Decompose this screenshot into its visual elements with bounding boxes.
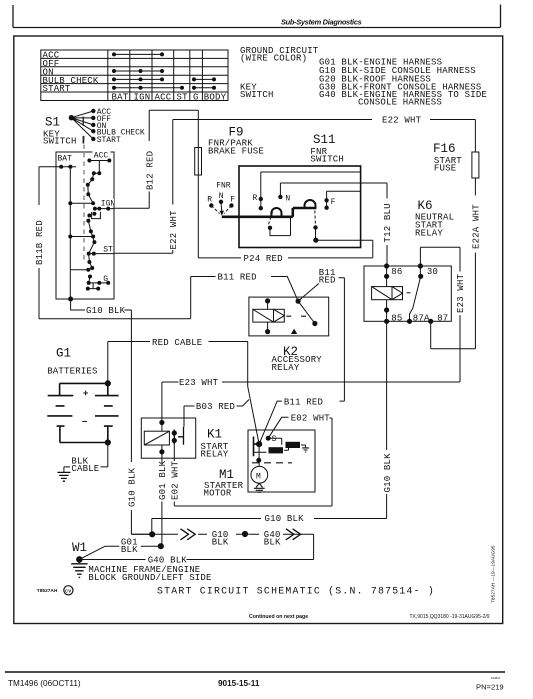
wire label G40 BLK stacked — [264, 530, 281, 548]
K1 contact — [172, 427, 183, 445]
table column headers BAT IGN ACC ST G BODY — [112, 93, 227, 103]
svg-text:ACC: ACC — [94, 152, 109, 161]
svg-text:E02 WHT: E02 WHT — [291, 413, 331, 423]
S11 contact F — [325, 191, 361, 209]
relay K6 caption NEUTRAL START RELAY — [415, 213, 454, 239]
svg-text:FNR: FNR — [216, 182, 231, 191]
key switch terminal label BAT — [57, 154, 73, 164]
K6 coil-arm dash — [407, 292, 413, 294]
wire E22 WHT key switch ST — [114, 120, 475, 254]
svg-text:B12 RED: B12 RED — [145, 151, 155, 190]
svg-text:PN=219: PN=219 — [476, 683, 504, 692]
S11 movable arm right dashed — [314, 211, 317, 225]
wire label BLK CABLE — [71, 456, 99, 474]
svg-text:BLOCK GROUND/LEFT SIDE: BLOCK GROUND/LEFT SIDE — [88, 573, 211, 583]
FNR position selector fan — [210, 200, 234, 216]
key switch terminal label ACC — [93, 150, 111, 161]
svg-text:SWITCH: SWITCH — [43, 136, 77, 146]
svg-text:BAT: BAT — [112, 93, 129, 103]
S1 position selector fan — [69, 109, 95, 140]
svg-text:B03 RED: B03 RED — [196, 402, 235, 412]
svg-text:BATTERIES: BATTERIES — [47, 367, 97, 377]
svg-text:RELAY: RELAY — [415, 229, 443, 239]
svg-text:CONSOLE HARNESS: CONSOLE HARNESS — [358, 97, 442, 107]
svg-text:30: 30 — [427, 267, 438, 277]
key switch G contact bars — [86, 275, 109, 290]
K6 terminal 87A — [407, 313, 430, 323]
table contacts row ON: BAT-IGN-ACC — [113, 70, 164, 73]
svg-text:T8527AH —19—19AUG95: T8527AH —19—19AUG95 — [491, 545, 497, 603]
ground circuit legend text — [240, 46, 487, 107]
S11 contact N rail to T12 — [279, 183, 387, 203]
svg-text:(WIRE COLOR): (WIRE COLOR) — [240, 53, 307, 63]
K2 coil terminals — [266, 299, 270, 334]
svg-text:100811: 100811 — [491, 676, 501, 680]
wire G10 BLK from key switch — [71, 299, 153, 534]
svg-text:G1: G1 — [56, 347, 71, 361]
svg-text:BLK: BLK — [212, 537, 229, 547]
svg-text:G10 BLK: G10 BLK — [86, 306, 126, 316]
svg-text:CABLE: CABLE — [71, 464, 99, 474]
wire E22A WHT from F16 to K6 87 — [431, 253, 476, 349]
svg-text:S11: S11 — [313, 133, 336, 147]
svg-text:G01 BLK: G01 BLK — [158, 460, 168, 500]
svg-text:BODY: BODY — [204, 93, 227, 103]
ground caption MACHINE FRAME/ENGINE BLOCK GROUND/LEFT SIDE — [88, 565, 211, 583]
svg-text:K1: K1 — [207, 428, 222, 442]
key switch IGN contact bar — [93, 207, 114, 210]
wire G01 BLK from K1 coil — [161, 452, 163, 546]
svg-text:Sub-System Diagnostics: Sub-System Diagnostics — [281, 17, 362, 26]
battery polarity plus — [83, 391, 88, 396]
svg-text:E22 WHT: E22 WHT — [382, 116, 422, 126]
table contacts row START: BAT-IGN-ST and G-BODY — [113, 86, 216, 89]
key switch internal dashed centerline — [83, 136, 85, 262]
wire RED CABLE battery positive to starter stud — [108, 342, 259, 445]
S11 wiper bus thick — [222, 208, 317, 217]
S11 hook contact right — [305, 200, 316, 208]
fuse F16 caption START FUSE — [434, 156, 462, 174]
wire B11 RED battery feed riser — [191, 277, 298, 319]
page border — [14, 36, 503, 624]
M1 solenoid internal wiring — [268, 438, 282, 445]
wire label B11 RED upper right two lines — [319, 268, 336, 286]
key switch rail 3 — [69, 235, 95, 238]
M1 resistor block upper — [286, 442, 301, 448]
svg-text:E23 WHT: E23 WHT — [456, 273, 466, 313]
key switch bottom junction — [69, 297, 73, 301]
svg-text:R: R — [253, 194, 258, 203]
FNR switch S11 box — [239, 166, 361, 248]
starter motor caption STARTER MOTOR — [204, 481, 244, 499]
wire T12 BLU from S11 N to K6 — [386, 183, 388, 266]
svg-text:B11B RED: B11B RED — [35, 220, 45, 265]
key switch rail 4 — [70, 268, 90, 271]
K1 coil terminals — [160, 420, 164, 454]
M1 internal ground — [301, 445, 309, 452]
svg-text:87A: 87A — [413, 313, 430, 323]
FNR position fan letters R N F — [207, 192, 235, 205]
harness connector chevrons left — [181, 529, 196, 540]
svg-text:86: 86 — [391, 267, 402, 277]
M1 solenoid terminal S — [266, 435, 276, 444]
svg-text:RELAY: RELAY — [201, 449, 229, 459]
M1 motor symbol — [251, 466, 268, 483]
key switch left bus — [69, 167, 71, 299]
harness connector chevrons right — [286, 529, 301, 540]
M1 motor ground — [254, 483, 265, 492]
ground bus line 2 — [131, 534, 313, 559]
S11 lower contact B to junction — [314, 226, 318, 242]
ground W1 junction — [77, 557, 83, 563]
S1 fan labels ACC OFF ON BULB CHECK START — [97, 108, 145, 145]
wire G01 BLK to frame ground — [79, 546, 160, 559]
svg-text:RED: RED — [319, 276, 336, 286]
svg-text:F9: F9 — [229, 126, 244, 140]
svg-text:TX,9015,QQ3180 -19-31AUG95-2/9: TX,9015,QQ3180 -19-31AUG95-2/9 — [410, 614, 490, 620]
key switch S1 caption KEY SWITCH — [43, 129, 77, 146]
key switch terminal label IGN — [100, 199, 115, 209]
K2 coil — [253, 309, 284, 322]
wire B11 RED vertical to starter — [339, 278, 345, 401]
fuse F16 symbol — [472, 120, 479, 196]
svg-text:START: START — [97, 136, 121, 145]
svg-text:ACC: ACC — [155, 93, 172, 103]
M1 linkage dashed line — [252, 462, 292, 464]
svg-text:BLK: BLK — [121, 545, 138, 555]
key switch contact chain lower — [88, 254, 94, 270]
S11 hook contact left — [271, 208, 281, 217]
svg-text:RELAY: RELAY — [272, 363, 300, 373]
svg-text:9015-15-11: 9015-15-11 — [218, 679, 260, 688]
line 2 junction at G10 drop — [150, 532, 155, 537]
svg-text:START CIRCUIT SCHEMATIC (S.N.: START CIRCUIT SCHEMATIC (S.N. 787514- ) — [157, 586, 435, 597]
M1 solenoid contact bar — [254, 437, 260, 457]
svg-text:BAT: BAT — [58, 154, 73, 163]
svg-text:G10 BLK: G10 BLK — [265, 514, 305, 524]
svg-text:G10 BLK: G10 BLK — [383, 453, 393, 493]
key switch terminal label G — [103, 275, 108, 284]
key switch position table S1 — [41, 50, 228, 101]
svg-text:TM1496 (06OCT11): TM1496 (06OCT11) — [8, 679, 81, 688]
svg-text:E23 WHT: E23 WHT — [179, 378, 219, 388]
svg-text:G10 BLK: G10 BLK — [128, 467, 138, 507]
M1 battery stud junction — [257, 442, 262, 447]
K6 terminal 85 ground — [385, 300, 403, 324]
K6 terminal 86 with T12 feed — [385, 264, 403, 287]
key switch contact chain middle — [87, 219, 96, 254]
starter motor M1 box — [248, 430, 315, 492]
fuse F9 symbol — [195, 110, 202, 175]
wire P24 RED from F9 to S11 — [198, 175, 372, 258]
relay K2 caption ACCESSORY RELAY — [272, 355, 323, 373]
header rule with end ticks — [13, 5, 501, 28]
svg-text:BLK: BLK — [264, 537, 281, 547]
svg-text:F: F — [331, 198, 336, 207]
wire B12 RED key switch IGN to F9 — [114, 110, 198, 208]
key switch BAT feed rail — [56, 165, 76, 168]
wire label G10 BLK stacked — [212, 530, 229, 548]
footer rule — [5, 671, 505, 673]
wire B03 RED to K1 contact — [184, 400, 249, 427]
svg-text:E02 WHT: E02 WHT — [171, 460, 181, 500]
K2 coil-arm dashes — [286, 315, 306, 317]
key switch terminal label ST — [103, 245, 114, 255]
svg-text:W1: W1 — [72, 541, 87, 555]
B11 RED leader diagonal to starter stud — [259, 401, 282, 444]
svg-text:E22 WHT: E22 WHT — [169, 210, 179, 250]
relay K6 box — [364, 266, 451, 321]
S1 fan position tick — [82, 117, 84, 126]
svg-text:F16: F16 — [433, 142, 456, 156]
svg-text:S1: S1 — [45, 115, 60, 129]
table contacts row BULB CHECK: BAT-IGN-ACC and G-BODY — [113, 78, 216, 81]
wire E02 WHT from K1 contact to solenoid — [174, 417, 332, 506]
svg-text:G: G — [193, 93, 199, 103]
svg-text:E22A WHT: E22A WHT — [472, 204, 482, 249]
svg-text:B11 RED: B11 RED — [218, 273, 257, 283]
key switch contact chain upper — [86, 173, 94, 203]
svg-text:RED CABLE: RED CABLE — [152, 338, 202, 348]
relay K1 caption START RELAY — [201, 442, 229, 460]
K6 switch arm 30 to 87A — [410, 276, 421, 321]
svg-text:Continued on next page: Continued on next page — [249, 614, 308, 620]
svg-text:CV: CV — [65, 588, 72, 593]
wire G40 BLK frame ground return — [79, 559, 313, 561]
FNR switch caption — [310, 147, 344, 165]
battery bank symbol — [47, 383, 118, 442]
K6 terminal 87 — [429, 313, 449, 323]
svg-text:M: M — [256, 472, 261, 481]
wire label G01 BLK stacked — [121, 537, 138, 555]
svg-text:FUSE: FUSE — [434, 164, 456, 174]
svg-text:85: 85 — [391, 313, 402, 323]
K1 coil — [144, 431, 169, 445]
battery G1 negative junction — [105, 440, 110, 445]
key switch ACC contact bar — [88, 159, 111, 175]
svg-text:IGN: IGN — [134, 93, 151, 103]
K2 switch arm — [296, 299, 317, 326]
wire BLK CABLE battery negative — [64, 443, 108, 473]
svg-text:87: 87 — [437, 313, 448, 323]
S11 movable arm left dashed — [269, 212, 273, 225]
S11 contact R — [253, 172, 361, 210]
battery ground symbol — [57, 472, 70, 481]
key switch ST contact bar — [87, 252, 114, 255]
svg-text:BRAKE FUSE: BRAKE FUSE — [208, 147, 264, 157]
svg-text:S: S — [272, 435, 277, 444]
battery G1 positive junction — [105, 381, 110, 386]
G01 BLK frame junction — [158, 544, 163, 549]
svg-text:START: START — [43, 84, 71, 94]
svg-text:B11 RED: B11 RED — [284, 397, 323, 407]
M1 resistor block lower — [269, 447, 284, 453]
K6 terminal 30 — [418, 264, 438, 279]
battery polarity minus — [82, 421, 87, 423]
svg-text:ST: ST — [177, 93, 189, 103]
relay K1 box — [141, 418, 195, 458]
ground symbol W1 machine frame — [71, 559, 87, 577]
svg-text:N: N — [285, 194, 290, 203]
svg-text:SWITCH: SWITCH — [310, 155, 344, 165]
fuse F9 caption FNR/PARK BRAKE FUSE — [208, 139, 264, 157]
key switch S1 box — [56, 152, 114, 299]
M1 lower contact wiring — [253, 444, 289, 452]
svg-text:SWITCH: SWITCH — [240, 90, 274, 100]
CV circle symbol — [64, 586, 73, 595]
key switch IGN hook — [88, 212, 101, 219]
line 2 junction dot — [242, 531, 247, 536]
K6 coil — [372, 287, 403, 300]
B11 RED label leader to K2 arm — [298, 284, 319, 302]
svg-text:K6: K6 — [418, 199, 433, 213]
svg-text:T8527AH: T8527AH — [37, 588, 58, 594]
wire B11B RED vertical — [39, 167, 191, 319]
wire E23 WHT from K6 30 to K1 — [162, 247, 460, 422]
K2 fixed contact marker — [291, 329, 297, 334]
wire G10 BLK from K6 85 to ground bus — [152, 321, 387, 534]
svg-text:MOTOR: MOTOR — [204, 489, 232, 499]
key switch rail 2 — [69, 202, 95, 205]
relay K2 box — [249, 297, 329, 336]
S1 pointer tick after SWITCH — [82, 136, 84, 144]
S11 lower contact A with loop — [268, 217, 290, 236]
svg-text:T12 BLU: T12 BLU — [383, 203, 393, 242]
svg-text:P24 RED: P24 RED — [244, 254, 283, 264]
table contacts row ACC: BAT-ACC — [113, 53, 164, 56]
M1 motor feed junction — [257, 458, 261, 462]
